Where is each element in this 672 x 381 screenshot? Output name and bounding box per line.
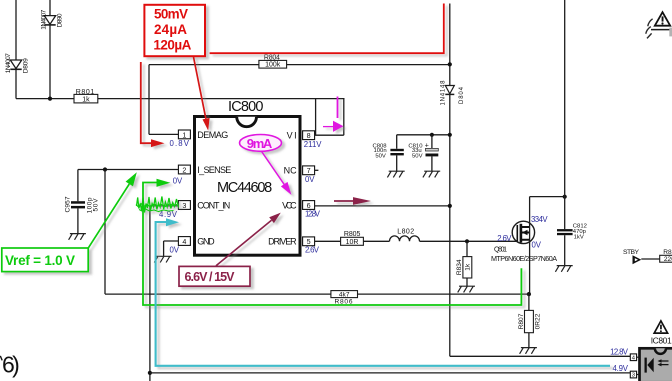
diode D809 (1N4007) bbox=[5, 53, 29, 73]
cyan annotation group bbox=[156, 218, 610, 366]
svg-text:1: 1 bbox=[182, 130, 186, 139]
svg-text:NC: NC bbox=[284, 166, 298, 176]
svg-text:120µA: 120µA bbox=[153, 38, 191, 53]
red elbow arrow at pin1 bbox=[141, 62, 152, 143]
ground R807 bbox=[520, 348, 537, 354]
resistor R806 4k7 bbox=[331, 291, 358, 306]
wire: vertical bus x=449.8 from top to 12.8V rail bbox=[449, 4, 451, 357]
node: junction C810 bbox=[430, 133, 434, 137]
svg-text:R807: R807 bbox=[518, 313, 525, 329]
svg-text:12.8V: 12.8V bbox=[610, 347, 629, 356]
maroon callout box 6.6V/15V bbox=[179, 266, 250, 286]
IC801 pin 4 box bbox=[630, 354, 636, 361]
svg-text:334V: 334V bbox=[531, 215, 548, 224]
svg-text:7: 7 bbox=[307, 166, 311, 175]
capacitor C808 100n 50V bbox=[373, 135, 404, 171]
capacitor C810 33u 50V electrolytic bbox=[408, 135, 438, 171]
svg-text:1k: 1k bbox=[82, 97, 90, 104]
wire: 4.9V rail to IC801 pin3 bbox=[150, 372, 630, 374]
svg-text:DEMAG: DEMAG bbox=[197, 130, 228, 140]
maroon annotation group bbox=[179, 197, 371, 286]
svg-text:DRIVER: DRIVER bbox=[268, 237, 297, 247]
warning triangle IC801 bbox=[654, 321, 667, 333]
svg-text:R81: R81 bbox=[663, 249, 672, 256]
resistor R804 100k bbox=[259, 54, 287, 68]
wire: GND pin4 wire bbox=[164, 241, 179, 256]
wire: C808/C810 rail y=134.8 bbox=[397, 134, 450, 136]
red arrow to DEMAG bbox=[194, 57, 206, 119]
warning triangle top-right bbox=[655, 12, 670, 26]
svg-text:2: 2 bbox=[182, 165, 186, 174]
magenta arrow to VCC bbox=[262, 151, 285, 184]
svg-text:4.9V: 4.9V bbox=[613, 364, 629, 373]
ground pin4 bbox=[154, 256, 171, 262]
wire: CONT_IN vertical to bottom bbox=[149, 206, 151, 381]
node: junction source/R806 bbox=[527, 292, 531, 296]
svg-text:MTP6N60E/2SP7N60A: MTP6N60E/2SP7N60A bbox=[491, 254, 557, 263]
node: junction D890/top rail bbox=[48, 97, 52, 101]
svg-text:8: 8 bbox=[307, 131, 311, 140]
svg-text:D804: D804 bbox=[459, 86, 465, 104]
wire: R804 rail y=64.6 bbox=[149, 64, 450, 66]
red annotation group bbox=[141, 4, 444, 148]
svg-text:D809: D809 bbox=[22, 58, 29, 73]
svg-text:1N4007: 1N4007 bbox=[40, 9, 47, 29]
wire: D809 vertical drop from top edge bbox=[15, 0, 17, 99]
wire: VCC wire pin6 bbox=[315, 205, 450, 207]
inductor L802 bbox=[390, 229, 420, 242]
svg-text:50V: 50V bbox=[93, 198, 100, 212]
wire: I_SENSE pin2 wire bbox=[78, 169, 178, 171]
svg-text:0V: 0V bbox=[170, 245, 180, 254]
svg-text:IC800: IC800 bbox=[228, 99, 264, 115]
svg-text:VCC: VCC bbox=[282, 200, 297, 210]
wire: top-right stub bbox=[651, 29, 672, 31]
svg-text:50mV: 50mV bbox=[154, 6, 188, 21]
svg-text:12.8V: 12.8V bbox=[305, 209, 321, 218]
magenta annotation group bbox=[240, 97, 344, 196]
wire: 12.8V rail to IC801 pin4 bbox=[450, 355, 631, 357]
diode D804 (1N4148) bbox=[441, 80, 465, 106]
svg-text:R801: R801 bbox=[76, 89, 95, 96]
green annotation group bbox=[2, 172, 522, 305]
green elbow highlight pin2 to source bbox=[143, 183, 521, 306]
node: junction 4.9V rail bbox=[148, 371, 152, 375]
svg-text:IC801: IC801 bbox=[651, 336, 672, 346]
pin 8 box bbox=[303, 131, 315, 140]
svg-text:220: 220 bbox=[664, 256, 672, 263]
resistor R805 10R bbox=[341, 231, 364, 246]
pin 4 box bbox=[178, 237, 190, 246]
IC800 body bbox=[195, 99, 301, 255]
node: junction C957/I_SENSE drop bbox=[103, 167, 107, 171]
pin 5 box bbox=[303, 237, 315, 246]
resistor R8xx at right edge bbox=[660, 249, 672, 263]
svg-text:1k: 1k bbox=[464, 263, 471, 271]
svg-text:2.6V: 2.6V bbox=[497, 234, 512, 243]
resistor R807 0R22 bbox=[518, 294, 542, 348]
svg-text:2.6V: 2.6V bbox=[305, 245, 320, 254]
wire: D890 vertical drop from top edge bbox=[49, 0, 51, 99]
pin 7 box bbox=[303, 166, 315, 175]
ground C810 bbox=[423, 171, 440, 177]
svg-text:GND: GND bbox=[197, 236, 215, 246]
pin 3 box bbox=[178, 201, 190, 210]
svg-text:1N4007: 1N4007 bbox=[5, 53, 12, 73]
node: junction rail/bus bbox=[448, 133, 452, 137]
svg-text:Q801: Q801 bbox=[494, 247, 507, 254]
capacitor C957 100p 50V bbox=[64, 170, 99, 234]
wire: I_SENSE vertical drop x=105 bbox=[104, 170, 106, 295]
connector break squiggle top-right bbox=[646, 19, 653, 39]
resistor R834 1k bbox=[456, 241, 472, 286]
STBY flag bbox=[623, 249, 660, 264]
magenta elbow arrow at VI bbox=[337, 97, 339, 119]
svg-text:100k: 100k bbox=[265, 62, 281, 69]
svg-text:VI: VI bbox=[287, 131, 297, 141]
svg-text:STBY: STBY bbox=[623, 249, 639, 256]
ground C808 bbox=[387, 171, 404, 177]
svg-text:4: 4 bbox=[182, 237, 186, 246]
IC801 pin 3 box bbox=[630, 371, 636, 378]
svg-text:0V: 0V bbox=[532, 241, 542, 250]
svg-text:6.6V / 15V: 6.6V / 15V bbox=[185, 270, 236, 284]
node: junction R804 rail / bus bbox=[448, 62, 452, 66]
resistor R801 1k bbox=[74, 89, 98, 104]
wire: top rail y=98.6 from D809 corner to VI loop bbox=[16, 98, 345, 100]
green noise scribble at pin3 bbox=[137, 197, 179, 213]
pin 6 box bbox=[303, 201, 315, 210]
capacitor C812 470p 1kV bbox=[557, 223, 587, 265]
svg-text:R834: R834 bbox=[456, 259, 463, 275]
pin 7 NC stub bbox=[315, 169, 319, 171]
diode D890 (1N4007) bbox=[40, 9, 63, 29]
wire: VI loop left vertical bbox=[315, 99, 317, 136]
wire: I_SENSE / R806 wire bbox=[105, 293, 529, 295]
red callout box 50mV/24uA/120uA bbox=[144, 5, 205, 56]
wire: VI loop right vertical bbox=[343, 99, 345, 136]
svg-text:CONT_IN: CONT_IN bbox=[197, 200, 230, 210]
grey stub component at right edge bbox=[669, 28, 672, 37]
svg-text:R805: R805 bbox=[344, 231, 361, 238]
wire: pin8 wire y=135.2 bbox=[315, 134, 344, 136]
svg-text:1N4148: 1N4148 bbox=[441, 80, 447, 106]
svg-text:0R22: 0R22 bbox=[535, 313, 542, 329]
wire: drain up and over to C812 bus bbox=[529, 197, 531, 295]
svg-text:C957: C957 bbox=[64, 196, 71, 212]
svg-text:3: 3 bbox=[182, 201, 186, 210]
svg-text:I_SENSE: I_SENSE bbox=[197, 165, 231, 175]
svg-text:Vref = 1.0 V: Vref = 1.0 V bbox=[5, 253, 75, 268]
ground C957 bbox=[69, 234, 86, 240]
wire: R804 net vertical x=149 bbox=[148, 65, 150, 135]
svg-text:6): 6) bbox=[2, 352, 20, 378]
svg-text:0V: 0V bbox=[305, 175, 315, 184]
maroon arrow on VCC wire bbox=[334, 200, 353, 202]
svg-text:MC44608: MC44608 bbox=[217, 180, 272, 196]
red line to top right bbox=[210, 4, 444, 54]
svg-text:R804: R804 bbox=[264, 54, 280, 61]
svg-text:0.8V: 0.8V bbox=[170, 139, 190, 148]
wire: DRIVER wire pin5 bbox=[315, 240, 518, 242]
svg-text:3: 3 bbox=[632, 373, 635, 379]
green Vref callout box bbox=[2, 248, 88, 272]
wire: C812 bus from top edge bbox=[564, 0, 566, 229]
svg-text:+: + bbox=[425, 143, 429, 150]
node: junction R834 bbox=[465, 239, 469, 243]
ground R834 bbox=[458, 286, 475, 292]
magenta 9mA ellipse bbox=[240, 135, 282, 152]
svg-text:10R: 10R bbox=[346, 239, 359, 246]
wire: pin1 DEMAG wire bbox=[149, 133, 178, 135]
svg-text:50V: 50V bbox=[412, 153, 423, 159]
node: junction drain/C812 bus bbox=[563, 195, 567, 199]
svg-text:0V: 0V bbox=[173, 177, 183, 186]
svg-text:D890: D890 bbox=[57, 13, 64, 27]
svg-text:L802: L802 bbox=[397, 229, 414, 236]
ground C812 bbox=[555, 266, 572, 272]
node: junction VCC/bus bbox=[448, 204, 452, 208]
svg-text:24µA: 24µA bbox=[154, 22, 187, 37]
pin 1 box bbox=[178, 130, 190, 139]
wire: CONT_IN pin3 wire bbox=[150, 205, 179, 207]
opto-coupler IC801 bbox=[640, 336, 672, 381]
svg-text:1kV: 1kV bbox=[574, 235, 584, 241]
svg-text:211V: 211V bbox=[304, 140, 322, 149]
cyan arrow + highlight pin3 to IC801 bbox=[156, 222, 610, 366]
green diagonal arrow to I_SENSE node bbox=[88, 184, 129, 248]
svg-text:50V: 50V bbox=[375, 153, 386, 159]
maroon arrow to VCC pin bbox=[216, 220, 272, 266]
transistor Q801 MTP6N60E/2SP7N60A bbox=[491, 221, 557, 263]
pin 2 box bbox=[178, 165, 190, 174]
svg-text:9mA: 9mA bbox=[247, 136, 273, 151]
